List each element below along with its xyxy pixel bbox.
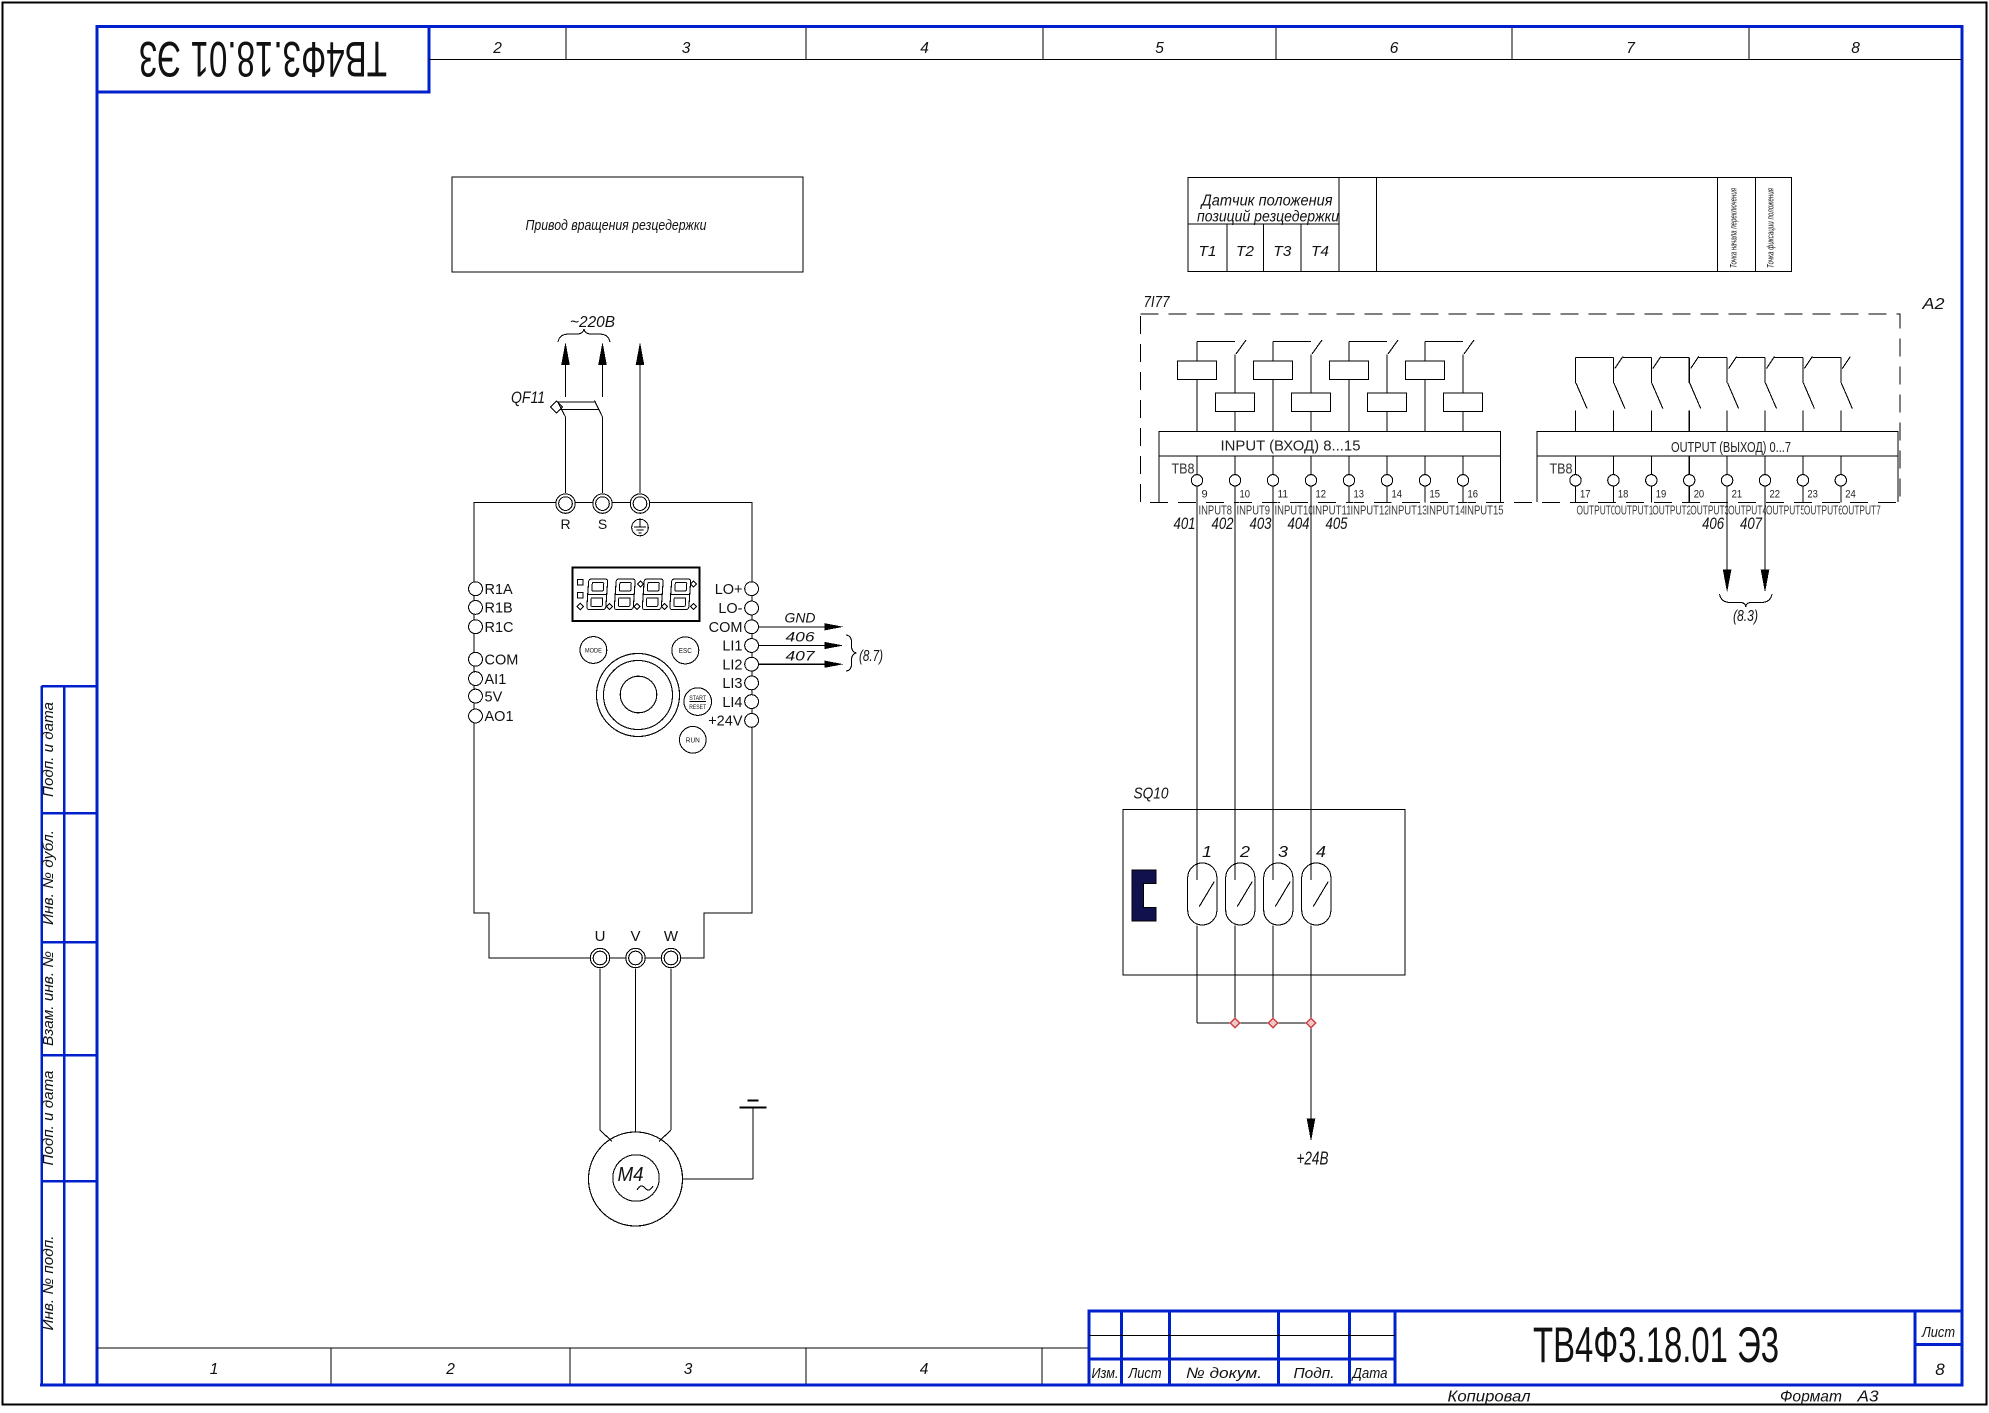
svg-text:8: 8: [1851, 40, 1860, 57]
svg-text:16: 16: [1468, 489, 1479, 501]
svg-text:3: 3: [1278, 844, 1288, 861]
svg-text:10: 10: [1240, 489, 1251, 501]
svg-text:OUTPUT1: OUTPUT1: [1614, 503, 1653, 518]
svg-text:14: 14: [1392, 489, 1403, 501]
svg-text:2: 2: [445, 1361, 455, 1378]
svg-text:Т2: Т2: [1236, 243, 1255, 260]
svg-text:19: 19: [1656, 489, 1667, 501]
svg-text:Т4: Т4: [1311, 243, 1329, 260]
svg-text:OUTPUT (ВЫХОД) 0...7: OUTPUT (ВЫХОД) 0...7: [1671, 439, 1791, 456]
svg-text:Точка фиксации положения: Точка фиксации положения: [1766, 188, 1776, 268]
svg-text:AI1: AI1: [485, 672, 507, 688]
svg-text:R1B: R1B: [485, 601, 513, 617]
svg-text:INPUT15: INPUT15: [1465, 503, 1504, 518]
svg-text:GND: GND: [785, 610, 816, 626]
svg-text:4: 4: [920, 1361, 929, 1378]
svg-text:3: 3: [682, 40, 691, 57]
svg-text:INPUT (ВХОД) 8...15: INPUT (ВХОД) 8...15: [1221, 439, 1361, 455]
svg-text:COM: COM: [485, 653, 519, 669]
svg-text:17: 17: [1580, 489, 1591, 501]
svg-text:407: 407: [1740, 515, 1763, 533]
svg-text:№ докум.: № докум.: [1186, 1365, 1262, 1382]
svg-text:LI1: LI1: [722, 639, 742, 655]
svg-text:RESET: RESET: [689, 704, 706, 711]
svg-text:Подп. и дата: Подп. и дата: [41, 702, 57, 797]
svg-text:Подп. и дата: Подп. и дата: [41, 1071, 57, 1166]
svg-text:ТВ4Ф3.18.01 Э3: ТВ4Ф3.18.01 Э3: [1533, 1317, 1779, 1373]
svg-text:Лист: Лист: [1921, 1324, 1955, 1341]
svg-text:406: 406: [1702, 515, 1725, 533]
svg-text:А2: А2: [1921, 296, 1944, 313]
svg-text:OUTPUT7: OUTPUT7: [1842, 503, 1881, 518]
svg-text:ТВ4Ф3.18.01 Э3: ТВ4Ф3.18.01 Э3: [139, 31, 387, 87]
svg-text:1: 1: [210, 1361, 219, 1378]
svg-text:5: 5: [1155, 40, 1164, 57]
svg-text:M4: M4: [618, 1164, 644, 1186]
svg-text:Инв. № подп.: Инв. № подп.: [41, 1236, 57, 1331]
svg-text:R: R: [560, 516, 570, 532]
svg-text:407: 407: [786, 648, 817, 664]
svg-text:Изм.: Изм.: [1092, 1365, 1119, 1382]
svg-text:ТВ8: ТВ8: [1550, 461, 1573, 478]
svg-text:~220В: ~220В: [570, 314, 615, 331]
svg-text:OUTPUT2: OUTPUT2: [1652, 503, 1691, 518]
svg-text:Т1: Т1: [1199, 243, 1217, 260]
svg-text:START: START: [689, 695, 706, 702]
svg-text:Лист: Лист: [1128, 1365, 1162, 1382]
svg-text:Формат: Формат: [1780, 1389, 1842, 1406]
svg-text:MODE: MODE: [585, 647, 602, 654]
svg-text:2: 2: [492, 40, 502, 57]
svg-text:AO1: AO1: [485, 709, 514, 725]
svg-text:U: U: [595, 928, 606, 945]
svg-text:V: V: [630, 928, 640, 945]
svg-text:23: 23: [1807, 489, 1818, 501]
svg-text:402: 402: [1212, 515, 1234, 533]
svg-text:7: 7: [1626, 40, 1636, 57]
svg-text:4: 4: [920, 40, 929, 57]
svg-text:404: 404: [1288, 515, 1310, 533]
svg-text:2: 2: [1239, 844, 1250, 861]
svg-text:Датчик положения: Датчик положения: [1200, 193, 1333, 210]
svg-text:INPUT14: INPUT14: [1427, 503, 1466, 518]
svg-text:LO+: LO+: [715, 582, 743, 598]
svg-text:Взам. инв. №: Взам. инв. №: [41, 951, 57, 1046]
svg-text:QF11: QF11: [511, 389, 545, 407]
svg-text:LI2: LI2: [722, 657, 742, 673]
svg-text:RUN: RUN: [686, 737, 700, 744]
svg-text:Точка начала переключения: Точка начала переключения: [1729, 188, 1739, 268]
svg-text:COM: COM: [709, 620, 743, 636]
svg-text:20: 20: [1694, 489, 1705, 501]
svg-text:W: W: [664, 928, 679, 945]
svg-text:6: 6: [1390, 40, 1399, 57]
svg-text:11: 11: [1278, 489, 1289, 501]
svg-text:LI4: LI4: [722, 695, 742, 711]
svg-text:Т3: Т3: [1273, 243, 1292, 260]
svg-text:15: 15: [1430, 489, 1441, 501]
svg-text:LI3: LI3: [722, 676, 742, 692]
svg-text:405: 405: [1326, 515, 1349, 533]
svg-text:Копировал: Копировал: [1448, 1389, 1531, 1406]
svg-text:R1C: R1C: [485, 620, 514, 636]
svg-text:4: 4: [1316, 844, 1326, 861]
svg-text:(8.7): (8.7): [859, 648, 883, 665]
svg-text:13: 13: [1354, 489, 1365, 501]
svg-text:INPUT12: INPUT12: [1351, 503, 1390, 518]
svg-text:21: 21: [1732, 489, 1743, 501]
svg-text:8: 8: [1935, 1360, 1945, 1379]
svg-text:+24В: +24В: [1297, 1149, 1329, 1169]
svg-text:А3: А3: [1856, 1389, 1878, 1406]
svg-text:ТВ8: ТВ8: [1172, 461, 1195, 478]
svg-text:24: 24: [1845, 489, 1856, 501]
svg-text:Инв. № дубл.: Инв. № дубл.: [41, 830, 57, 925]
svg-text:403: 403: [1250, 515, 1273, 533]
svg-text:Подп.: Подп.: [1294, 1365, 1335, 1382]
svg-text:1: 1: [1202, 844, 1212, 861]
svg-text:5V: 5V: [485, 689, 503, 705]
svg-text:INPUT13: INPUT13: [1389, 503, 1428, 518]
svg-text:SQ10: SQ10: [1134, 786, 1169, 803]
svg-text:Дата: Дата: [1351, 1365, 1388, 1382]
svg-text:LO-: LO-: [718, 601, 742, 617]
svg-text:7І77: 7І77: [1144, 294, 1171, 311]
svg-text:ESC: ESC: [679, 648, 692, 655]
svg-text:S: S: [598, 516, 607, 532]
svg-text:(8.3): (8.3): [1733, 608, 1758, 625]
svg-text:18: 18: [1618, 489, 1629, 501]
svg-text:406: 406: [786, 629, 815, 645]
svg-text:OUTPUT5: OUTPUT5: [1766, 503, 1805, 518]
svg-text:R1A: R1A: [485, 582, 514, 598]
svg-text:12: 12: [1316, 489, 1327, 501]
svg-text:OUTPUT6: OUTPUT6: [1804, 503, 1843, 518]
svg-text:401: 401: [1174, 515, 1196, 533]
svg-text:OUTPUT0: OUTPUT0: [1577, 503, 1616, 518]
svg-text:3: 3: [684, 1361, 693, 1378]
svg-text:+24V: +24V: [708, 714, 743, 730]
svg-text:9: 9: [1202, 489, 1208, 501]
svg-text:22: 22: [1770, 489, 1781, 501]
svg-text:позиций резцедержки: позиций резцедержки: [1197, 209, 1339, 226]
svg-text:Привод вращения резцедержки: Привод вращения резцедержки: [526, 217, 708, 234]
